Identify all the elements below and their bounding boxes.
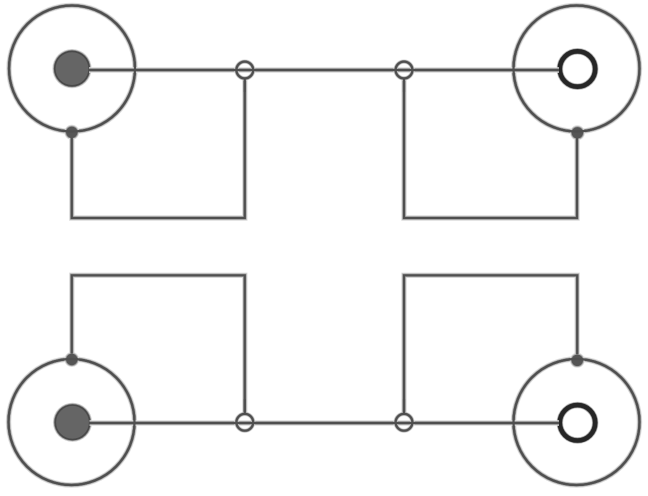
pin: P1 shield contact dot xyxy=(64,125,79,140)
wire: top-right shield loop (P2 dot down, left, up to node B) xyxy=(404,79,577,218)
wire: top signal conductor core across nodes A,B xyxy=(89,69,559,71)
connector P2 body outline core xyxy=(514,6,640,132)
pin: P2 center socket (open ring) xyxy=(560,51,595,86)
pin: P4 shield contact dot xyxy=(570,353,585,368)
wire: shield stub joining node A from below xyxy=(244,79,246,92)
wire: bottom-right shield loop (P4 dot up, left, down to node D) xyxy=(404,275,577,414)
connector P1 body (top-left RCA plug outline) xyxy=(9,6,135,132)
connector P2 body (top-right RCA jack outline) xyxy=(514,6,640,132)
pin: P1 center pin (filled disc) xyxy=(52,49,91,88)
node D (bottom-right open junction) xyxy=(396,414,413,431)
wire: bottom-left shield loop (P3 dot up, right, down to node C) xyxy=(72,275,245,414)
pin: P2 shield contact dot xyxy=(570,125,585,140)
connector P4 body (bottom-right RCA jack outline) xyxy=(514,359,640,485)
wire: shield stub joining node C from above xyxy=(244,399,246,414)
connector P4 body outline core xyxy=(514,359,640,485)
wire: shield stub joining node B from below xyxy=(403,79,405,92)
connector P1 body outline core xyxy=(9,6,135,132)
wire: shield stub joining node D from above xyxy=(403,399,405,414)
connector P3 body (bottom-left RCA plug outline) xyxy=(9,359,135,485)
connector P3 body outline core xyxy=(9,359,135,485)
pin: P3 center pin (filled disc) xyxy=(53,403,92,442)
wire: bottom signal conductor core across nodes C,D xyxy=(90,422,560,424)
node A (top-left open junction) xyxy=(236,62,253,79)
wire: top-left shield loop (P1 dot down, right, up to node A) xyxy=(72,79,245,218)
pin: P4 center socket (open ring) xyxy=(560,405,595,440)
node B (top-right open junction) xyxy=(396,62,413,79)
node C (bottom-left open junction) xyxy=(236,414,253,431)
wire: top signal conductor (P1 pin to P2 socket through nodes A,B) xyxy=(89,67,559,72)
wire: bottom signal conductor (P3 pin to P4 socket through nodes C,D) xyxy=(90,420,560,425)
pin: P3 shield contact dot xyxy=(64,352,79,367)
